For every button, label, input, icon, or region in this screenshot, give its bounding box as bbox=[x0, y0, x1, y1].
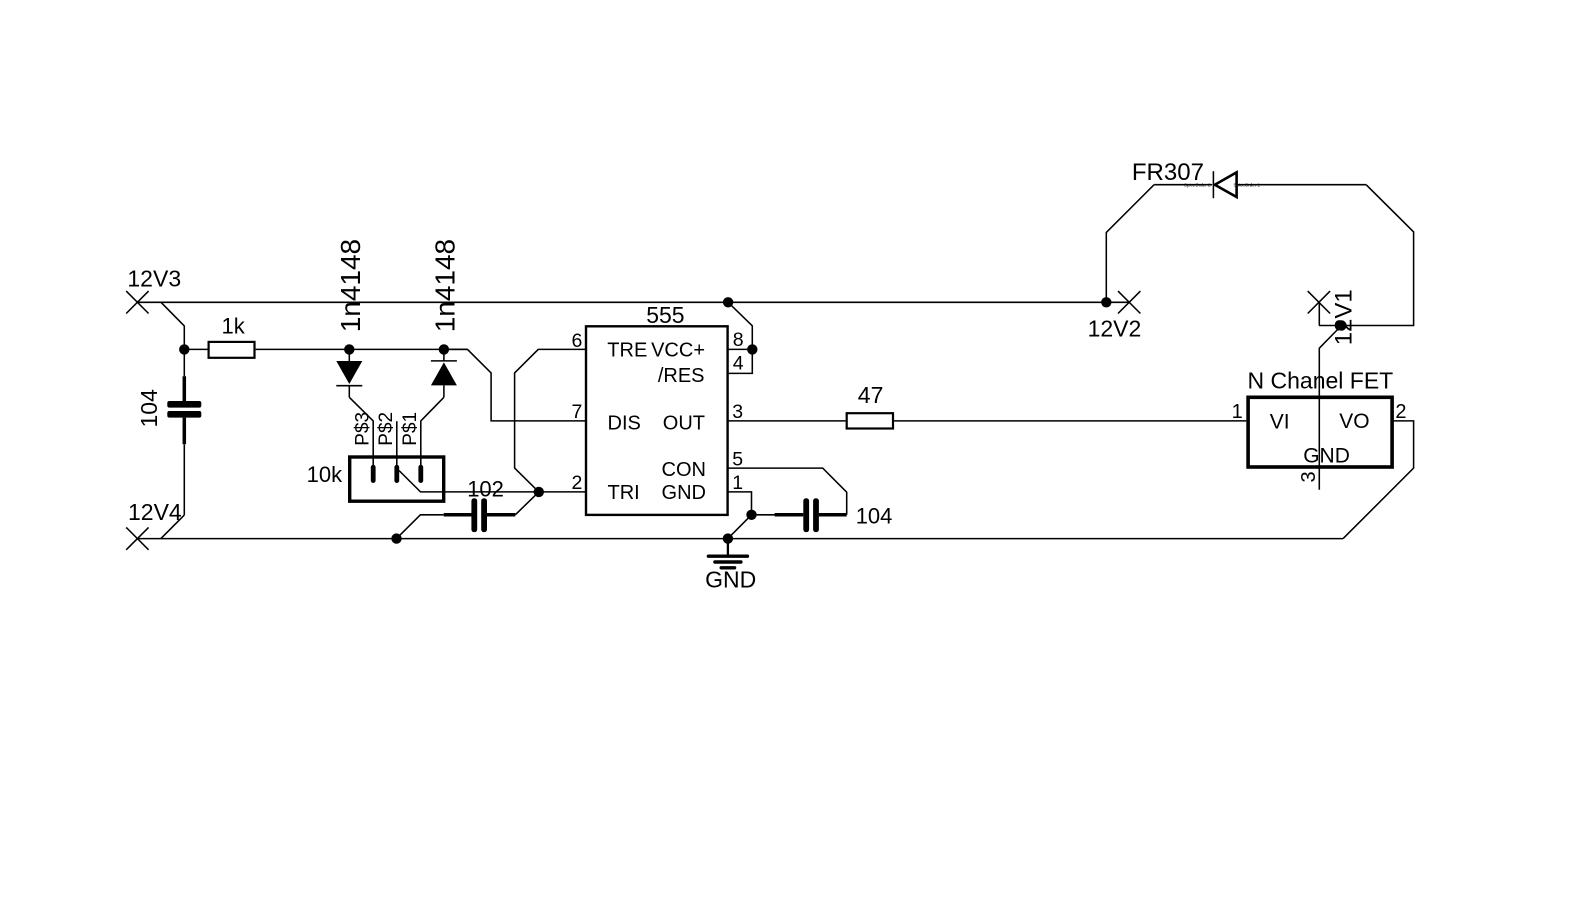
node junction top rail / FR307 bbox=[1101, 297, 1111, 307]
svg-text:555: 555 bbox=[646, 302, 684, 328]
svg-text:6: 6 bbox=[571, 330, 582, 352]
svg-text:12V4: 12V4 bbox=[128, 499, 182, 525]
svg-text:104: 104 bbox=[856, 504, 893, 529]
wire 12V3 branch to R1 bbox=[161, 302, 184, 349]
svg-text:12V1: 12V1 bbox=[1330, 289, 1357, 345]
diode D1 1n4148 bbox=[335, 239, 366, 397]
svg-text:4: 4 bbox=[733, 353, 744, 375]
svg-text:VO: VO bbox=[1339, 410, 1369, 433]
wire FET VO pin2 to bottom rail bbox=[1343, 421, 1414, 539]
node junction pin 8 bbox=[747, 344, 757, 354]
resistor R2 47 bbox=[847, 382, 893, 429]
wire top rail to pins 8 and 4 bbox=[728, 302, 752, 373]
node junction 12V1 bbox=[1336, 320, 1346, 330]
diode D2 1n4148 bbox=[430, 239, 461, 397]
wire C1 to bottom rail bbox=[161, 515, 184, 539]
svg-text:102: 102 bbox=[467, 477, 504, 502]
wire D2 to P$1 bbox=[421, 397, 444, 465]
svg-text:2: 2 bbox=[1395, 401, 1406, 423]
svg-text:VI: VI bbox=[1270, 410, 1290, 433]
node 12V3 bbox=[126, 265, 181, 313]
wire TRE pin6 to TRI junction bbox=[515, 349, 586, 492]
svg-text:1k: 1k bbox=[222, 314, 246, 339]
svg-text:5: 5 bbox=[732, 448, 743, 470]
node junction diode D1 top bbox=[344, 344, 354, 354]
wire R1 to diodes row bbox=[256, 348, 468, 350]
capacitor C2 102 bbox=[397, 477, 539, 539]
svg-text:104: 104 bbox=[136, 389, 162, 428]
svg-text:10k: 10k bbox=[307, 462, 343, 487]
svg-text:3: 3 bbox=[1298, 471, 1320, 482]
wire CON pin5 to C3 bbox=[729, 468, 847, 515]
svg-text:8: 8 bbox=[733, 329, 744, 351]
svg-text:12V2: 12V2 bbox=[1088, 315, 1142, 341]
wire FR307 cathode to 12V1 bbox=[1319, 185, 1414, 326]
svg-text:SpiceOrder 1: SpiceOrder 1 bbox=[1234, 182, 1261, 187]
svg-text:1: 1 bbox=[732, 472, 743, 494]
IC U1 555 bbox=[571, 302, 743, 515]
node 12V4 bbox=[126, 499, 182, 550]
wire D1 to P$3 bbox=[349, 397, 373, 465]
svg-text:1n4148: 1n4148 bbox=[430, 239, 461, 332]
node junction R1/C1 bbox=[179, 344, 189, 354]
wire 12V1 junction to FET pin3 bbox=[1319, 326, 1341, 490]
svg-text:1: 1 bbox=[1232, 401, 1243, 423]
diode D3 FR307 bbox=[1132, 159, 1366, 198]
regulator U2 N Chanel FET bbox=[1232, 368, 1407, 483]
svg-text:/RES: /RES bbox=[658, 365, 705, 387]
wire OUT pin3 to R2 bbox=[729, 420, 846, 422]
svg-text:SpiceOrder 2: SpiceOrder 2 bbox=[1184, 182, 1211, 187]
wire wiper diagonal to TRI bbox=[399, 471, 586, 492]
svg-text:GND: GND bbox=[705, 567, 756, 593]
svg-text:2: 2 bbox=[571, 472, 582, 494]
svg-text:CON: CON bbox=[662, 459, 706, 481]
node junction top rail / 555 supply bbox=[723, 297, 733, 307]
wire junction to R1 bbox=[184, 348, 207, 350]
svg-text:47: 47 bbox=[858, 382, 884, 408]
resistor R1 1k bbox=[209, 314, 255, 358]
svg-text:P$1: P$1 bbox=[400, 412, 421, 446]
wire R2 to FET VI pin1 bbox=[894, 420, 1246, 422]
wire pin1 junction to bottom rail bbox=[728, 515, 752, 539]
node 12V1 bbox=[1308, 289, 1358, 345]
wire top rail 12V3 to 12V2 bbox=[137, 301, 1129, 303]
wire FR307 anode to top rail bbox=[1106, 185, 1154, 303]
svg-text:12V3: 12V3 bbox=[127, 265, 181, 291]
node junction pin1/C3 bbox=[746, 510, 756, 520]
potentiometer RV1 10k bbox=[307, 412, 444, 501]
svg-text:P$3: P$3 bbox=[353, 412, 374, 446]
svg-text:N Chanel FET: N Chanel FET bbox=[1248, 368, 1394, 394]
svg-text:DIS: DIS bbox=[608, 413, 641, 435]
svg-text:1n4148: 1n4148 bbox=[335, 239, 366, 332]
svg-text:GND: GND bbox=[1303, 445, 1350, 468]
capacitor C1 104 bbox=[136, 349, 202, 515]
wire diodes row to 555 DIS pin 7 bbox=[444, 349, 586, 421]
capacitor C3 104 bbox=[752, 498, 893, 532]
svg-text:VCC+: VCC+ bbox=[651, 339, 705, 361]
svg-text:OUT: OUT bbox=[663, 413, 705, 435]
node 12V2 bbox=[1088, 291, 1142, 341]
wire bottom rail bbox=[137, 538, 1343, 540]
ground GND symbol bbox=[705, 539, 756, 593]
svg-text:7: 7 bbox=[571, 401, 582, 423]
svg-text:P$2: P$2 bbox=[376, 412, 397, 446]
svg-text:3: 3 bbox=[732, 401, 743, 423]
node junction bottom rail / C2 bbox=[391, 533, 401, 543]
node junction TRI bbox=[534, 487, 544, 497]
node junction bottom rail / GND bbox=[723, 533, 733, 543]
node junction diode D2 top bbox=[439, 344, 449, 354]
svg-text:TRI: TRI bbox=[608, 482, 640, 504]
svg-text:GND: GND bbox=[662, 482, 706, 504]
svg-text:TRE: TRE bbox=[607, 339, 647, 361]
wire GND pin1 down bbox=[729, 492, 752, 515]
